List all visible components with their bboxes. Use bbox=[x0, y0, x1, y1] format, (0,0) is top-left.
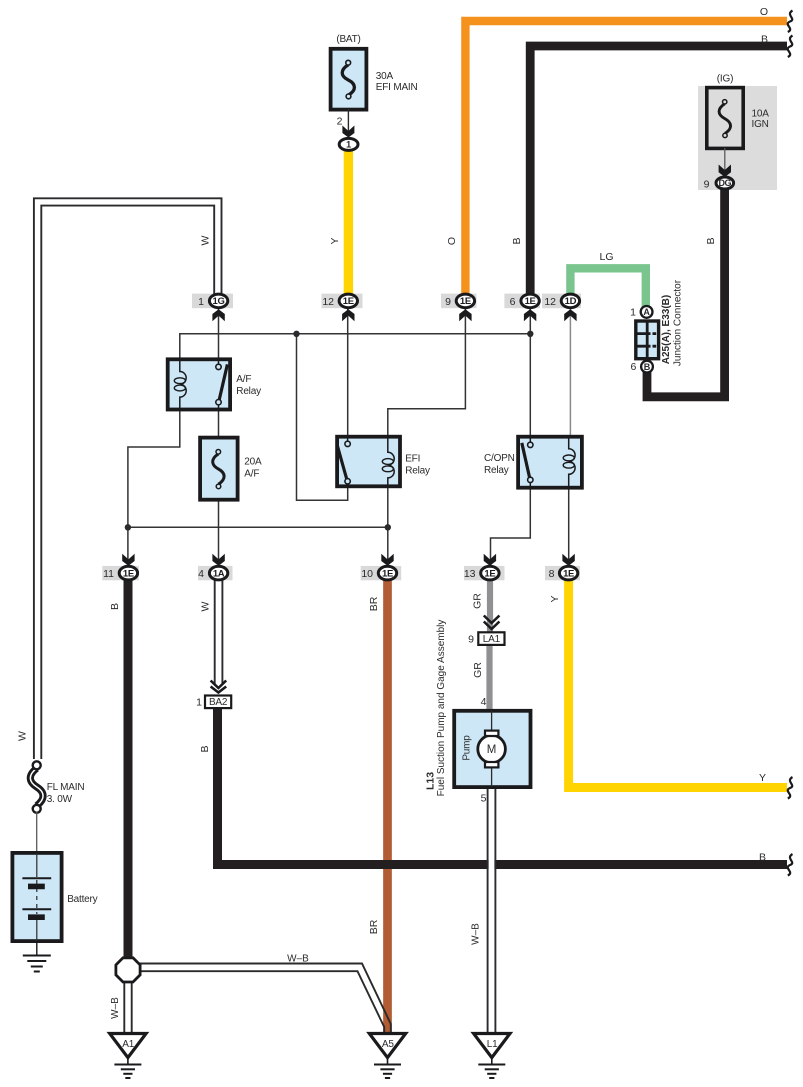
double chevron above BA2 bbox=[211, 681, 227, 693]
svg-text:3. 0W: 3. 0W bbox=[47, 794, 73, 805]
wire W left (FL MAIN up and over to 1G) double line bbox=[34, 198, 222, 759]
svg-text:12: 12 bbox=[322, 296, 334, 308]
break symbol Y wire bottom bbox=[788, 777, 793, 799]
svg-text:6: 6 bbox=[510, 296, 516, 308]
connector 4 1A bbox=[198, 554, 228, 581]
svg-text:DG: DG bbox=[719, 178, 732, 188]
junction connector A25/E33 grid bbox=[636, 321, 659, 359]
octagon junction bbox=[116, 958, 140, 982]
svg-text:2: 2 bbox=[337, 116, 343, 128]
svg-text:BA2: BA2 bbox=[209, 697, 228, 708]
connector 13 1E bbox=[464, 554, 499, 581]
svg-text:Relay: Relay bbox=[405, 466, 430, 477]
svg-text:B: B bbox=[109, 603, 121, 610]
svg-text:Pump: Pump bbox=[462, 735, 473, 761]
arrow down above connector 1 bbox=[342, 126, 354, 138]
ground triangle A5 bbox=[369, 1034, 405, 1058]
junction dot bus1-right bbox=[527, 331, 533, 337]
pump assembly L13 bbox=[454, 711, 530, 787]
C/OPN switch bbox=[529, 437, 531, 442]
svg-text:W: W bbox=[200, 235, 212, 245]
wire: A/F coil bottom down-left to 11 1E bbox=[128, 410, 180, 570]
svg-text:1E: 1E bbox=[460, 296, 471, 307]
svg-text:Y: Y bbox=[549, 595, 561, 602]
connector 9 1E bbox=[445, 294, 474, 321]
wire O orange top bbox=[465, 21, 787, 297]
wire B from BA2 to right edge bbox=[218, 706, 788, 865]
wire W-B octagon to A1 double line bbox=[124, 980, 131, 1033]
connector 1 1G bbox=[198, 294, 228, 321]
wire: fuse IGN to DG bbox=[724, 148, 726, 178]
svg-text:B: B bbox=[644, 362, 651, 372]
fuse 20A A/F bbox=[200, 438, 238, 500]
wire W from 4 1A to BA2 double line bbox=[215, 578, 223, 684]
svg-text:B: B bbox=[761, 34, 768, 46]
connector 1 (battery side of fuse) bbox=[339, 138, 358, 150]
wire: EFI switch bottom to bus junction bbox=[297, 334, 348, 501]
wire: FL MAIN to battery bbox=[36, 812, 38, 852]
svg-text:1: 1 bbox=[630, 307, 636, 319]
connector DG bbox=[716, 177, 734, 189]
EFI coil bbox=[388, 437, 394, 487]
svg-text:L1: L1 bbox=[487, 1039, 498, 1050]
svg-text:L13: L13 bbox=[425, 772, 437, 790]
connector label backgrounds row1 bbox=[192, 294, 581, 309]
svg-text:BR: BR bbox=[368, 596, 380, 611]
ground under battery bbox=[23, 941, 51, 972]
connector 12 1D bbox=[544, 294, 579, 321]
svg-text:IGN: IGN bbox=[752, 119, 769, 130]
svg-text:Relay: Relay bbox=[484, 465, 509, 476]
connector 6 1E bbox=[510, 294, 540, 321]
wire: thin bus y527.3 bbox=[128, 526, 388, 528]
svg-text:1A: 1A bbox=[213, 568, 225, 579]
svg-text:A: A bbox=[643, 307, 650, 317]
svg-text:B: B bbox=[199, 745, 211, 752]
svg-text:8: 8 bbox=[549, 568, 555, 580]
A/F switch bbox=[218, 359, 220, 364]
svg-text:12: 12 bbox=[544, 296, 556, 308]
svg-text:20A: 20A bbox=[244, 457, 262, 468]
wire BR brown bbox=[383, 576, 392, 1033]
svg-text:B: B bbox=[705, 237, 717, 244]
svg-text:W: W bbox=[17, 731, 29, 741]
svg-text:BR: BR bbox=[368, 919, 380, 934]
svg-text:C/OPN: C/OPN bbox=[484, 453, 515, 464]
svg-text:30A: 30A bbox=[376, 71, 394, 82]
svg-text:B: B bbox=[759, 852, 766, 864]
ground symbol A1 bbox=[114, 1058, 141, 1078]
EFI switch bbox=[347, 437, 349, 441]
svg-text:EFI: EFI bbox=[405, 454, 420, 465]
IG gray panel bbox=[698, 86, 777, 190]
svg-text:9: 9 bbox=[468, 634, 474, 646]
wire: thin gray net 12 1D to C/OPN coil bbox=[569, 308, 571, 437]
svg-text:9: 9 bbox=[704, 179, 710, 191]
motor M circle bbox=[478, 735, 506, 763]
wire: thin net 9 1E down, elbow to EFI coil top bbox=[388, 308, 466, 437]
svg-text:(IG): (IG) bbox=[717, 74, 733, 85]
A/F coil bbox=[180, 359, 186, 409]
svg-text:11: 11 bbox=[103, 568, 114, 580]
svg-text:1E: 1E bbox=[563, 568, 574, 579]
svg-text:1E: 1E bbox=[484, 568, 495, 579]
svg-text:10: 10 bbox=[361, 568, 373, 580]
svg-text:1D: 1D bbox=[565, 296, 577, 307]
connector 11 1E bbox=[103, 554, 138, 581]
svg-text:1G: 1G bbox=[213, 296, 225, 307]
svg-text:1: 1 bbox=[198, 296, 204, 308]
connector A of junction bbox=[641, 306, 653, 318]
fuse 10A IGN (IG) bbox=[707, 88, 743, 149]
wire: EFI coil bottom to 10 1E bbox=[387, 487, 389, 570]
connector LA1 bbox=[478, 632, 504, 645]
svg-text:A1: A1 bbox=[122, 1039, 134, 1050]
connector 8 1E bbox=[549, 554, 578, 581]
svg-text:A/F: A/F bbox=[244, 469, 259, 480]
connector B of junction bbox=[641, 361, 653, 373]
relay EFI Relay bbox=[337, 437, 400, 487]
connector label backgrounds row2 bbox=[102, 566, 580, 580]
svg-text:O: O bbox=[760, 6, 768, 18]
wire GR gray lower bbox=[486, 643, 492, 711]
wire W-B pump to L1 double line (white core over B wire) bbox=[489, 789, 495, 1033]
wire Y yellow from BAT fuse bbox=[344, 147, 353, 297]
arrow down above DG bbox=[719, 165, 731, 178]
svg-text:1: 1 bbox=[346, 140, 351, 150]
svg-text:Battery: Battery bbox=[67, 894, 97, 905]
wire: C/OPN switch bottom elbow to 13 1E bbox=[491, 488, 531, 570]
svg-text:W–B: W–B bbox=[110, 997, 121, 1019]
battery bbox=[12, 853, 61, 941]
connector 12 1E bbox=[322, 294, 357, 321]
wire: fuse BAT to connector 1 bbox=[347, 109, 349, 140]
wire: thin net 6 1E to C/OPN switch bbox=[529, 308, 531, 437]
brush top bbox=[485, 731, 498, 736]
svg-text:Relay: Relay bbox=[236, 386, 261, 397]
double chevron above LA1 bbox=[484, 616, 500, 630]
ground symbol L1 bbox=[478, 1058, 505, 1078]
fusible link FL MAIN bbox=[30, 761, 43, 813]
svg-text:Y: Y bbox=[759, 772, 766, 784]
svg-text:EFI MAIN: EFI MAIN bbox=[376, 82, 418, 93]
relay A/F Relay bbox=[168, 359, 230, 409]
ground symbol A5 bbox=[374, 1058, 401, 1078]
wire B from DG to junction connector B bbox=[647, 186, 725, 397]
wire B black top bbox=[530, 46, 787, 297]
svg-text:LG: LG bbox=[599, 251, 613, 263]
svg-text:Junction Connector: Junction Connector bbox=[673, 279, 684, 366]
wire W-B octagon to A5 double line bbox=[139, 964, 391, 1034]
svg-text:9: 9 bbox=[445, 296, 451, 308]
wire: thin net 12 1E to EFI switch bbox=[347, 308, 349, 437]
svg-text:A5: A5 bbox=[382, 1039, 394, 1050]
fuse 30A EFI MAIN (BAT) bbox=[331, 49, 367, 110]
junction dot bus1-left bbox=[293, 331, 299, 337]
svg-text:1E: 1E bbox=[123, 568, 134, 579]
svg-text:W–B: W–B bbox=[287, 954, 309, 965]
relay C/OPN Relay bbox=[518, 437, 582, 488]
ground triangle L1 bbox=[474, 1034, 510, 1058]
svg-text:4: 4 bbox=[198, 568, 204, 580]
brush bottom bbox=[485, 762, 498, 767]
wire GR gray upper bbox=[487, 576, 493, 634]
break symbol O wire bbox=[788, 11, 793, 33]
connector BA2 bbox=[205, 696, 231, 709]
svg-text:LA1: LA1 bbox=[483, 634, 501, 645]
junction dot bus2-right bbox=[385, 524, 391, 530]
svg-text:Y: Y bbox=[329, 237, 341, 244]
svg-text:W–B: W–B bbox=[471, 923, 482, 945]
junction dot bus2-left bbox=[125, 524, 131, 530]
wire Y yellow bottom from 8 1E bbox=[569, 576, 787, 788]
svg-text:1E: 1E bbox=[525, 296, 536, 307]
wire: 20A fuse to 4 1A bbox=[218, 500, 220, 570]
break symbol B wire bottom bbox=[788, 854, 793, 876]
svg-text:M: M bbox=[487, 744, 497, 756]
break symbol B wire top bbox=[788, 36, 793, 58]
svg-text:O: O bbox=[446, 237, 458, 245]
svg-text:B: B bbox=[511, 237, 523, 244]
svg-text:1E: 1E bbox=[382, 568, 393, 579]
connector 10 1E bbox=[361, 554, 396, 581]
svg-text:1E: 1E bbox=[343, 296, 354, 307]
svg-text:4: 4 bbox=[481, 696, 487, 708]
wire: A/F switch bottom to 20A fuse bbox=[218, 410, 220, 438]
C/OPN coil bbox=[569, 437, 575, 488]
svg-text:10A: 10A bbox=[752, 109, 770, 120]
svg-text:(BAT): (BAT) bbox=[336, 34, 360, 45]
svg-text:W: W bbox=[200, 601, 212, 611]
svg-text:1: 1 bbox=[196, 697, 202, 709]
svg-text:Fuel Suction Pump and Gage Ass: Fuel Suction Pump and Gage Assembly bbox=[436, 620, 447, 797]
svg-text:A25(A), E33(B): A25(A), E33(B) bbox=[661, 295, 672, 364]
svg-text:GR: GR bbox=[472, 593, 484, 609]
wire B from 11 1E to octagon joint bbox=[124, 576, 133, 960]
wire: thin net 1G to A/F relay switch bbox=[218, 308, 220, 359]
svg-text:6: 6 bbox=[631, 361, 637, 373]
svg-text:5: 5 bbox=[481, 793, 487, 805]
svg-text:13: 13 bbox=[464, 568, 476, 580]
svg-text:FL MAIN: FL MAIN bbox=[47, 782, 85, 793]
wire: thin bus y333.8 with elbow down to A/F coil bbox=[180, 334, 531, 359]
svg-text:A/F: A/F bbox=[236, 374, 251, 385]
wire LG green bbox=[570, 268, 645, 307]
ground triangle A1 bbox=[110, 1034, 146, 1058]
wire: C/OPN coil bottom to 8 1E bbox=[568, 488, 570, 570]
svg-text:GR: GR bbox=[472, 662, 484, 678]
